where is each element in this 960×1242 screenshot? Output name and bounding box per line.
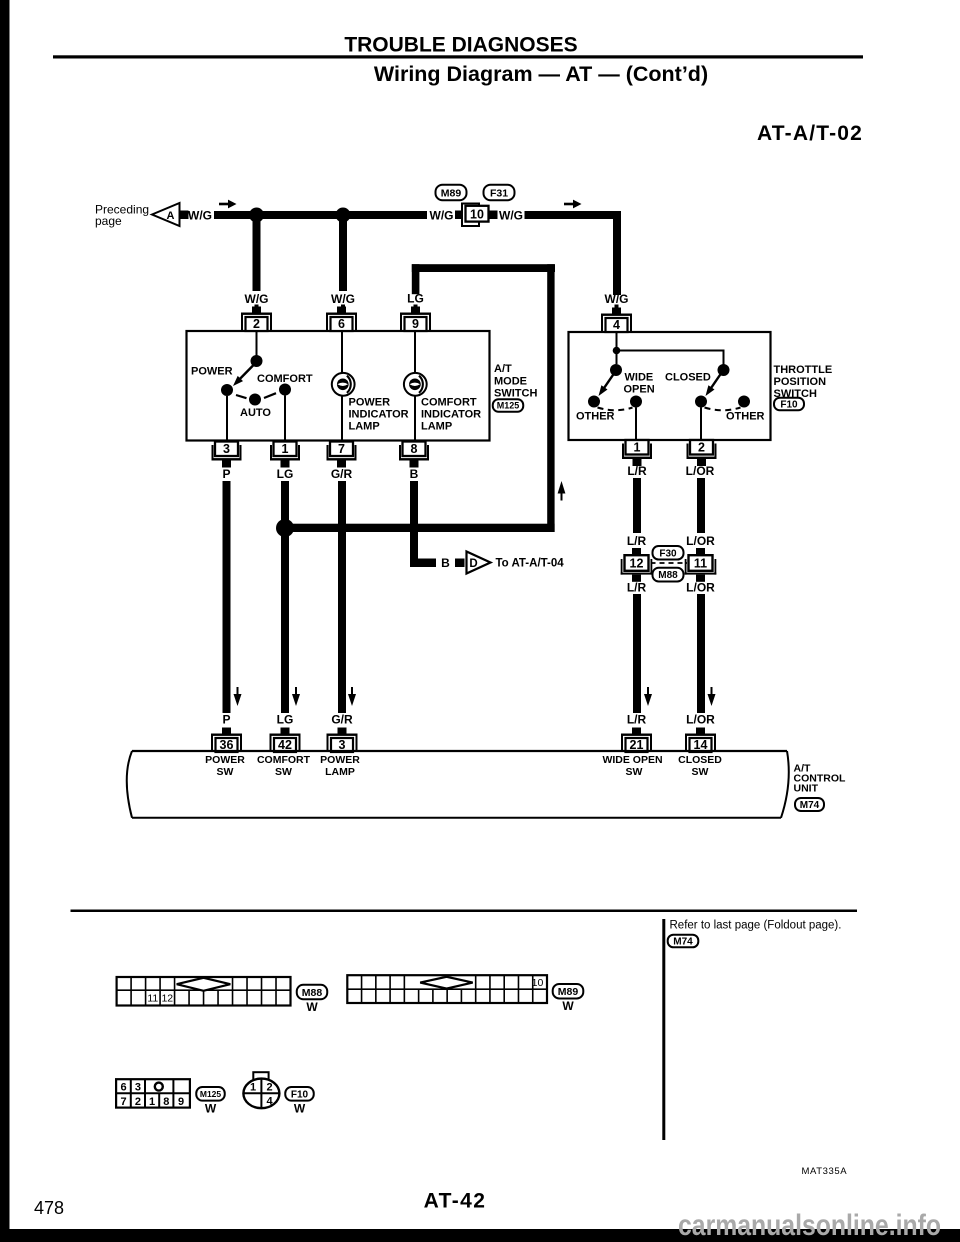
svg-text:L/OR: L/OR — [686, 581, 715, 595]
switch arm to common right — [706, 374, 722, 397]
wire POWER contact to terminal 3 — [226, 396, 228, 441]
closed contact dot — [718, 364, 730, 376]
svg-text:To AT-A/T-04: To AT-A/T-04 — [496, 558, 565, 570]
down arrow G/R — [348, 687, 356, 706]
switch arm to POWER contact — [233, 364, 255, 386]
wire B vertical — [410, 481, 418, 562]
svg-text:6: 6 — [120, 1082, 126, 1094]
svg-text:8: 8 — [163, 1096, 169, 1108]
reference divider vertical line — [662, 919, 665, 1140]
svg-text:F10: F10 — [291, 1089, 309, 1100]
wire trunk W/G horizontal segment 2 — [525, 211, 622, 219]
svg-text:M89: M89 — [558, 986, 579, 998]
wire W/G junction2 down to terminal 6 — [339, 215, 347, 291]
direction arrow right 2 — [564, 200, 582, 209]
svg-text:LG: LG — [277, 467, 294, 481]
connector F10 oval — [774, 398, 804, 411]
svg-text:11: 11 — [694, 557, 707, 571]
label A/T CONTROL UNIT — [794, 763, 846, 795]
svg-text:CLOSED: CLOSED — [665, 372, 711, 384]
wire to closed contact branch — [617, 351, 724, 365]
svg-text:OPEN: OPEN — [624, 384, 655, 396]
terminal 1 throttle — [622, 440, 652, 466]
connector M74 oval — [795, 798, 824, 811]
wire trunk W/G horizontal segment 1 — [214, 211, 427, 219]
svg-text:L/R: L/R — [627, 534, 647, 548]
svg-text:LAMP: LAMP — [325, 766, 355, 778]
terminal 9 — [400, 307, 431, 332]
stub before connector D — [455, 559, 465, 568]
connector A triangle (from preceding page) — [152, 203, 180, 226]
junction dot LG — [276, 519, 294, 537]
wire L/R lower segment — [633, 594, 641, 713]
svg-text:page: page — [95, 214, 122, 228]
svg-text:W: W — [562, 999, 574, 1013]
svg-text:B: B — [410, 467, 419, 481]
svg-text:POWER: POWER — [205, 754, 245, 766]
wire terminal 9 to comfort indicator lamp — [414, 332, 416, 375]
svg-text:AT-A/T-02: AT-A/T-02 — [757, 122, 863, 145]
down arrow LG — [292, 687, 300, 706]
svg-text:L/R: L/R — [627, 713, 647, 727]
svg-text:WIDE OPEN: WIDE OPEN — [602, 754, 662, 766]
wire lamp to terminal 8 — [414, 396, 416, 441]
svg-text:10: 10 — [532, 977, 544, 989]
wire to wide open branch — [616, 351, 618, 365]
label THROTTLE POSITION SWITCH — [774, 364, 833, 400]
svg-text:L/OR: L/OR — [686, 713, 715, 727]
svg-text:L/OR: L/OR — [686, 464, 715, 478]
wire LG loop left vertical — [412, 264, 420, 294]
connector M89 pin grid — [347, 975, 547, 1003]
wire L/R upper segment — [633, 478, 641, 533]
svg-text:7: 7 — [338, 442, 345, 456]
svg-text:SW: SW — [275, 766, 292, 778]
wire COMFORT contact to terminal 1 — [284, 396, 286, 442]
terminal 1 — [270, 442, 300, 468]
svg-text:L/OR: L/OR — [686, 534, 715, 548]
direction arrow up beside loop — [558, 481, 566, 501]
svg-text:F30: F30 — [659, 548, 677, 559]
terminal 7 — [327, 442, 357, 468]
terminal 8 — [399, 442, 429, 468]
wire common to terminal 2 — [700, 408, 702, 440]
svg-text:1: 1 — [250, 1082, 256, 1094]
svg-text:POWER: POWER — [320, 754, 360, 766]
junction dot small — [613, 347, 621, 355]
svg-text:1: 1 — [282, 442, 289, 456]
svg-text:M74: M74 — [673, 937, 693, 948]
connector F10 oval label — [285, 1087, 314, 1116]
wire L/OR upper segment — [697, 478, 705, 533]
svg-text:8: 8 — [411, 442, 418, 456]
label COMFORT INDICATOR LAMP — [421, 397, 481, 433]
svg-text:D: D — [469, 558, 477, 570]
svg-text:A/T: A/T — [494, 363, 512, 375]
svg-text:6: 6 — [338, 317, 345, 331]
wire L/OR lower segment — [697, 594, 705, 713]
A/T control unit box — [127, 751, 789, 818]
svg-text:M74: M74 — [800, 800, 820, 811]
terminal 42 — [270, 728, 301, 753]
svg-text:2: 2 — [266, 1082, 272, 1094]
connector M125 oval — [493, 399, 524, 412]
svg-text:carmanualsonline.info: carmanualsonline.info — [678, 1209, 941, 1242]
svg-text:SW: SW — [217, 766, 234, 778]
junction dot 2 — [336, 208, 351, 223]
svg-text:M125: M125 — [200, 1089, 222, 1099]
wire LG loop top horizontal — [412, 264, 555, 272]
connector M74 oval reference — [668, 935, 699, 948]
stub before connector 10 — [455, 211, 464, 220]
wire terminal 4 down — [616, 332, 618, 348]
in-line connector 11 — [685, 548, 717, 582]
label POWER INDICATOR LAMP — [349, 397, 409, 433]
label A/T MODE SWITCH — [494, 363, 537, 400]
svg-text:LAMP: LAMP — [349, 421, 380, 433]
connector F10 pin diagram — [243, 1072, 279, 1108]
svg-text:W/G: W/G — [188, 209, 212, 223]
svg-text:M88: M88 — [302, 987, 323, 999]
common contact dot right — [695, 396, 707, 408]
svg-text:4: 4 — [613, 318, 620, 332]
down arrow L/OR — [708, 687, 716, 706]
svg-text:7: 7 — [120, 1096, 126, 1108]
svg-text:W: W — [205, 1102, 217, 1116]
stub at connector A — [180, 211, 189, 220]
terminal label WIDE OPEN SW — [602, 754, 662, 778]
svg-text:W: W — [306, 1000, 318, 1014]
terminal 3 control unit — [327, 728, 358, 753]
svg-text:INDICATOR: INDICATOR — [349, 409, 409, 421]
svg-text:B: B — [441, 556, 450, 570]
svg-text:9: 9 — [412, 317, 419, 331]
header rule — [53, 55, 863, 58]
svg-text:AT-42: AT-42 — [424, 1190, 487, 1213]
wire terminal 6 to power indicator lamp — [341, 332, 343, 375]
wire P vertical — [223, 481, 231, 713]
svg-text:Refer to last page (Foldout pa: Refer to last page (Foldout page). — [670, 920, 842, 932]
terminal 6 — [326, 307, 357, 332]
svg-text:1: 1 — [149, 1096, 155, 1108]
svg-text:SW: SW — [626, 766, 643, 778]
wire LG vertical — [281, 481, 289, 713]
svg-text:OTHER: OTHER — [726, 411, 765, 423]
down arrow L/R — [644, 687, 652, 706]
svg-text:M125: M125 — [497, 401, 520, 411]
in-line connector 12 — [621, 548, 653, 582]
connector M125 oval label — [196, 1087, 225, 1116]
wire B horizontal stub — [410, 559, 436, 568]
svg-text:W: W — [294, 1102, 306, 1116]
connector M89 oval — [436, 185, 467, 201]
svg-text:G/R: G/R — [331, 713, 353, 727]
svg-text:SW: SW — [692, 766, 709, 778]
wide open common dot — [610, 364, 622, 376]
direction arrow right — [219, 200, 237, 209]
svg-text:12: 12 — [161, 993, 173, 1005]
stub after connector 10 — [489, 211, 498, 220]
svg-text:WIDE: WIDE — [625, 372, 654, 384]
svg-text:G/R: G/R — [331, 467, 353, 481]
terminal label POWER SW — [205, 754, 245, 778]
svg-text:LG: LG — [277, 713, 294, 727]
OTHER contact dot right — [738, 396, 750, 408]
svg-text:OTHER: OTHER — [576, 411, 615, 423]
svg-text:Wiring Diagram — AT — (Cont’d): Wiring Diagram — AT — (Cont’d) — [374, 62, 708, 86]
comfort indicator lamp — [404, 373, 427, 396]
svg-text:LG: LG — [407, 292, 424, 306]
terminal 2 — [241, 307, 272, 332]
terminal 14 — [685, 728, 716, 753]
svg-text:F10: F10 — [780, 400, 798, 411]
terminal 21 — [621, 728, 652, 753]
switch arm to OTHER left — [599, 374, 615, 397]
wire wide open contact to terminal 1 — [635, 408, 637, 440]
power indicator lamp — [332, 373, 355, 396]
connector M88 oval — [653, 568, 684, 582]
connector M88 pin grid — [117, 977, 291, 1006]
OTHER contact dot left — [588, 396, 600, 408]
svg-text:1: 1 — [634, 441, 641, 455]
terminal 36 — [211, 728, 242, 753]
svg-text:4: 4 — [266, 1096, 273, 1108]
wire W/G junction1 down to terminal 2 — [253, 215, 261, 291]
separator rule — [71, 910, 858, 913]
svg-text:9: 9 — [178, 1096, 184, 1108]
terminal label CLOSED SW — [678, 754, 722, 778]
A/T mode switch box — [187, 331, 490, 441]
svg-text:POSITION: POSITION — [774, 376, 827, 388]
terminal label COMFORT SW — [257, 754, 311, 778]
connector F30 oval — [653, 546, 684, 560]
connector F31 oval — [484, 185, 515, 201]
svg-text:11: 11 — [147, 993, 158, 1005]
in-line connector 10 (M89/F31 pass-through) — [462, 204, 489, 227]
connector M125 pin grid — [116, 1079, 190, 1108]
svg-text:W/G: W/G — [499, 209, 523, 223]
svg-text:F31: F31 — [490, 187, 508, 199]
svg-text:A: A — [167, 210, 175, 222]
svg-text:CLOSED: CLOSED — [678, 754, 722, 766]
terminal label POWER LAMP — [320, 754, 360, 778]
connector D triangle (to AT-A/T-04) — [467, 552, 491, 574]
dashed link AUTO-COMFORT — [264, 393, 276, 398]
svg-text:P: P — [222, 467, 230, 481]
terminal 3 — [212, 442, 242, 468]
svg-text:MODE: MODE — [494, 376, 527, 388]
svg-text:3: 3 — [135, 1082, 141, 1094]
svg-text:UNIT: UNIT — [794, 783, 819, 795]
short wire to terminal 4 stub — [615, 305, 619, 309]
wire LG loop right vertical — [547, 264, 554, 532]
svg-text:L/R: L/R — [627, 464, 647, 478]
POWER contact dot — [221, 384, 233, 396]
svg-text:L/R: L/R — [627, 581, 647, 595]
svg-text:COMFORT: COMFORT — [257, 754, 311, 766]
wire lamp to terminal 7 — [341, 396, 343, 441]
svg-text:2: 2 — [698, 441, 705, 455]
throttle position switch box — [569, 332, 771, 440]
terminal 2 throttle — [687, 440, 717, 466]
down arrow P — [234, 687, 242, 706]
switch common dot — [251, 355, 263, 367]
svg-text:POWER: POWER — [349, 397, 391, 409]
svg-text:LAMP: LAMP — [421, 421, 452, 433]
svg-text:W/G: W/G — [245, 292, 269, 306]
wire W/G vertical to terminal 4 — [613, 211, 621, 295]
svg-text:M88: M88 — [658, 570, 678, 581]
WIDE OPEN contact dot — [630, 396, 642, 408]
svg-text:SWITCH: SWITCH — [494, 388, 537, 400]
svg-text:12: 12 — [630, 557, 644, 571]
svg-text:POWER: POWER — [191, 366, 233, 378]
connector M89 oval label — [553, 984, 584, 1013]
svg-text:10: 10 — [470, 207, 484, 221]
svg-text:W/G: W/G — [331, 292, 355, 306]
junction dot 1 — [249, 208, 264, 223]
svg-text:THROTTLE: THROTTLE — [774, 364, 833, 376]
svg-text:MAT335A: MAT335A — [802, 1166, 848, 1177]
dashed arc OTHER-WIDE OPEN — [598, 408, 633, 411]
dashed connector link — [651, 562, 688, 564]
svg-text:TROUBLE DIAGNOSES: TROUBLE DIAGNOSES — [344, 34, 577, 57]
svg-text:W/G: W/G — [605, 292, 629, 306]
svg-text:2: 2 — [135, 1096, 141, 1108]
svg-text:478: 478 — [34, 1198, 64, 1218]
svg-text:AUTO: AUTO — [240, 407, 271, 419]
svg-text:COMFORT: COMFORT — [257, 373, 313, 385]
svg-text:2: 2 — [253, 317, 260, 331]
COMFORT contact dot — [279, 384, 291, 396]
svg-text:COMFORT: COMFORT — [421, 397, 477, 409]
connector M88 oval label — [297, 985, 328, 1014]
label WIDE OPEN — [624, 372, 655, 396]
svg-text:W/G: W/G — [430, 209, 454, 223]
svg-text:INDICATOR: INDICATOR — [421, 409, 481, 421]
svg-text:3: 3 — [223, 442, 230, 456]
AUTO contact dot — [249, 394, 261, 406]
svg-text:M89: M89 — [441, 187, 462, 199]
dashed link POWER-AUTO — [236, 395, 247, 398]
wire LG bottom horizontal — [285, 524, 555, 532]
dashed arc right — [705, 408, 741, 411]
svg-text:P: P — [222, 713, 230, 727]
wire G/R vertical — [338, 481, 346, 713]
terminal 4 — [601, 308, 632, 333]
wire terminal 2 to switch common — [256, 332, 258, 357]
